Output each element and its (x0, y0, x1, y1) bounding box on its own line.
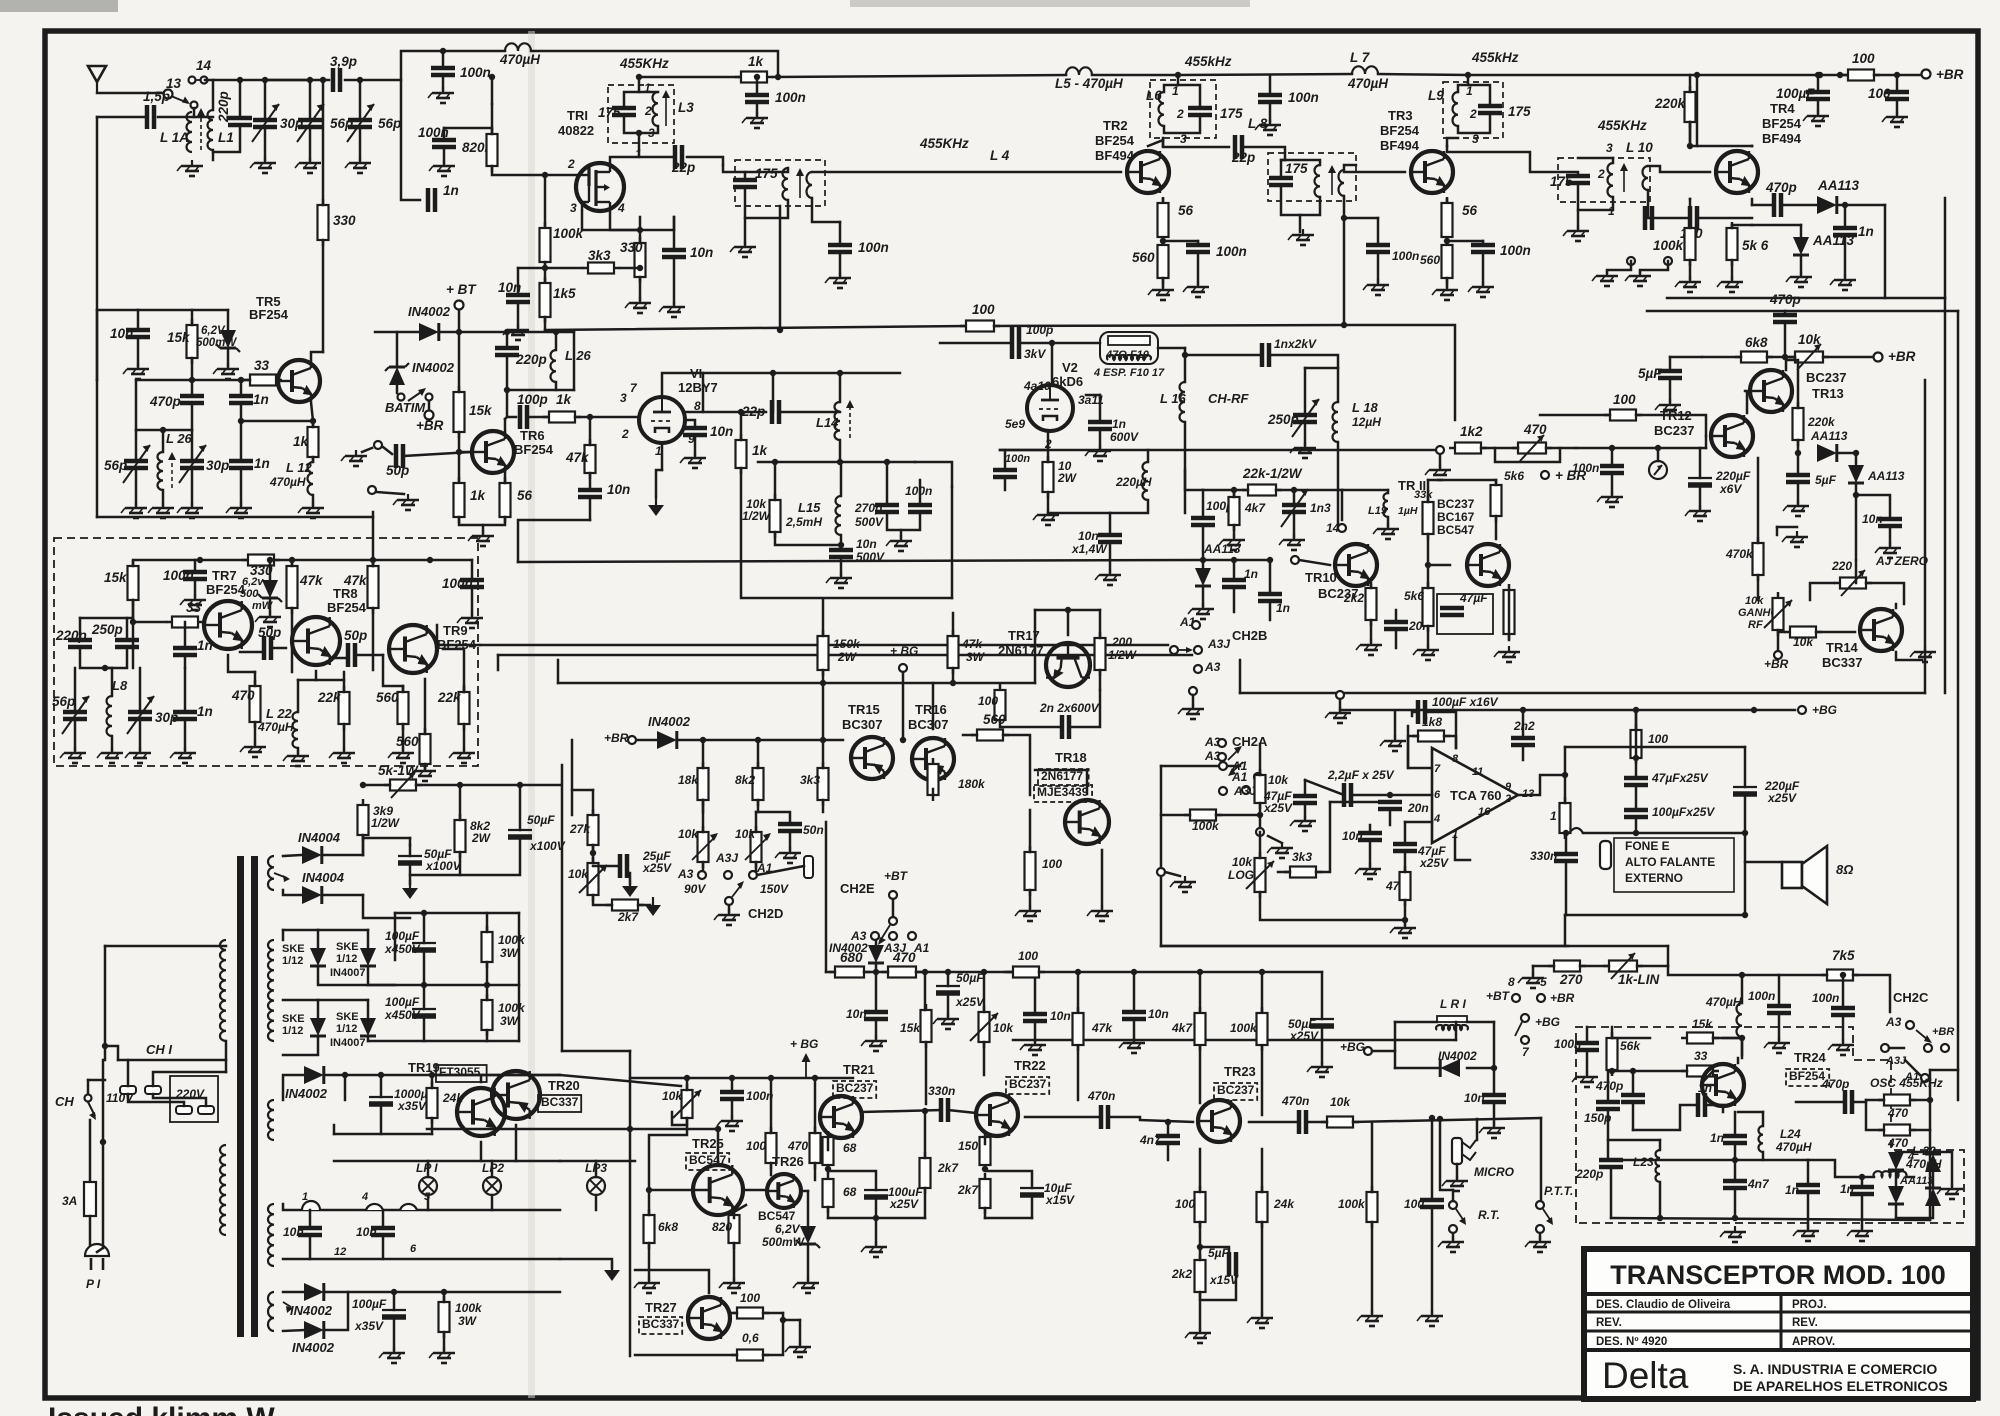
wire (595, 1195, 598, 1210)
svg-text:3k3: 3k3 (588, 248, 611, 263)
junction (1853, 450, 1859, 456)
wire (756, 77, 759, 95)
wire (1202, 525, 1205, 560)
svg-text:AA113: AA113 (1899, 1175, 1933, 1187)
svg-text:BF254: BF254 (1789, 1069, 1825, 1083)
wire (947, 972, 950, 986)
wire (1048, 512, 1110, 515)
svg-text:3W: 3W (966, 650, 986, 664)
wire to V1 grid (575, 416, 639, 419)
wire (1281, 160, 1320, 165)
resistor 100k 3W b (482, 994, 493, 1036)
wire (396, 385, 399, 393)
wire (685, 420, 695, 428)
wire (1202, 490, 1205, 515)
ground (180, 594, 206, 610)
svg-text:175: 175 (1220, 106, 1243, 121)
wire L4 to AGC bus (779, 206, 782, 330)
wire (322, 240, 325, 352)
capacitor cap (1645, 206, 1652, 230)
wire (1670, 356, 1702, 359)
inductor LR1 coil (1436, 1025, 1468, 1030)
svg-text:1/2W: 1/2W (1108, 648, 1138, 662)
wire (734, 1205, 746, 1212)
ground (634, 1277, 660, 1293)
svg-text:10k: 10k (678, 827, 699, 841)
junction (945, 969, 951, 975)
svg-text:100n: 100n (442, 576, 473, 591)
wire (191, 380, 194, 396)
wire (97, 309, 138, 312)
capacitor 470n c (1299, 1110, 1306, 1134)
wire (1344, 165, 1356, 170)
wire (1668, 966, 1827, 975)
svg-text:TR2: TR2 (1103, 118, 1128, 133)
capacitor 1n (173, 648, 197, 655)
wire (1197, 241, 1200, 245)
junction (1840, 972, 1846, 978)
resistor 8k2 2W (455, 814, 466, 858)
resistor 3k9 1/2W (358, 799, 369, 841)
wire (924, 1188, 927, 1218)
resistor 100 (960, 321, 1000, 332)
resistor 1k (308, 421, 319, 463)
svg-text:x100V: x100V (425, 859, 462, 873)
svg-text:AJ ZERO: AJ ZERO (1875, 554, 1929, 568)
capacitor 470p (1774, 193, 1781, 217)
resistor 18k (698, 762, 709, 806)
chassis ground (402, 880, 418, 899)
wire (443, 1292, 446, 1302)
wire (326, 1291, 560, 1294)
svg-text:10k: 10k (735, 827, 756, 841)
svg-text:FONE E: FONE E (1625, 839, 1670, 853)
svg-text:BF494: BF494 (1762, 131, 1802, 146)
svg-text:TR6: TR6 (520, 428, 545, 443)
svg-text:TR18: TR18 (1055, 750, 1087, 765)
variable capacitor 56p (123, 445, 150, 483)
ground (659, 301, 685, 317)
svg-text:47k: 47k (565, 450, 590, 465)
contact (698, 871, 706, 879)
wire (428, 401, 431, 410)
svg-text:2,5mH: 2,5mH (785, 515, 822, 529)
svg-text:A1: A1 (1231, 759, 1248, 773)
label BC337 (538, 1095, 581, 1112)
wire (822, 740, 825, 768)
wire (463, 686, 466, 692)
svg-text:270: 270 (1559, 972, 1583, 987)
wire (985, 1171, 1032, 1188)
contact (889, 891, 897, 899)
wire (1632, 1071, 1635, 1095)
wire (205, 79, 240, 82)
svg-text:10n: 10n (1342, 829, 1363, 843)
potentiometer 220 (1834, 570, 1872, 596)
wire (1669, 357, 1672, 371)
wire (557, 660, 560, 683)
svg-text:8k2: 8k2 (735, 773, 755, 787)
wire bus972 (1039, 971, 1322, 974)
svg-text:2W: 2W (837, 650, 858, 664)
wire right vertical B (1957, 311, 1960, 1100)
zener diode 1N4002 switch (385, 363, 409, 385)
wire (1493, 1102, 1496, 1125)
capacitor 10n 500V (829, 550, 853, 557)
transistor TR13 BC237 (1750, 370, 1792, 412)
transistor TR14 BC337 (1860, 609, 1902, 651)
wire (919, 480, 922, 505)
junction (421, 910, 427, 916)
PTT contact (1536, 1201, 1544, 1209)
capacitor 470n b (1101, 1105, 1108, 1129)
wire (1690, 145, 1752, 148)
wire (1099, 610, 1102, 638)
wire (1495, 480, 1498, 485)
wire (1439, 455, 1442, 467)
wire (1404, 851, 1407, 872)
wire long drop (825, 822, 828, 972)
svg-text:6k8: 6k8 (658, 1220, 678, 1234)
label MJE3439 (1034, 785, 1092, 802)
wire (1522, 710, 1525, 738)
wire (1408, 736, 1418, 768)
svg-text:3: 3 (570, 201, 577, 215)
wire (367, 930, 370, 948)
resistor 15k b (1681, 1033, 1719, 1044)
svg-text:2: 2 (567, 157, 575, 171)
resistor 1k (454, 477, 465, 523)
svg-text:100k: 100k (1653, 238, 1685, 253)
wire (1304, 803, 1307, 818)
junction (441, 1289, 447, 1295)
svg-text:220p: 220p (515, 352, 547, 367)
svg-text:Delta: Delta (1602, 1355, 1689, 1396)
wire (239, 80, 242, 118)
oscillator dashed box (1576, 1027, 1964, 1223)
wire (649, 1189, 690, 1192)
ground (148, 502, 174, 518)
wire (1178, 74, 1352, 75)
wire (1200, 1264, 1236, 1300)
wire (745, 168, 788, 172)
wire (458, 310, 461, 332)
wire (1004, 477, 1007, 490)
svg-text:40822: 40822 (558, 123, 594, 138)
wire (1199, 972, 1202, 1013)
wire (1202, 560, 1205, 568)
svg-text:L 8: L 8 (1248, 116, 1268, 131)
capacitor 1n c (1723, 1136, 1747, 1143)
svg-text:1n: 1n (197, 704, 213, 719)
wire (1147, 450, 1150, 462)
resistor 10k b (1321, 1117, 1359, 1128)
capacitor 100 (1885, 92, 1909, 99)
wire (362, 835, 365, 855)
wire (1161, 945, 1668, 948)
IF can L6 dashed box (1150, 80, 1216, 138)
wire (137, 310, 140, 330)
capacitor 50µF x100V (398, 856, 422, 863)
zener diode zener 6,2V b (796, 1226, 820, 1248)
wire (1261, 1045, 1264, 1115)
wire (395, 912, 519, 915)
svg-text:330: 330 (333, 213, 356, 228)
junction (1894, 72, 1900, 78)
junction (197, 557, 203, 563)
svg-text:24k: 24k (1273, 1197, 1295, 1211)
IF can L3 dashed box (608, 85, 674, 143)
wire (1261, 972, 1264, 1013)
wire (1842, 1015, 1845, 1042)
wire (1184, 422, 1187, 513)
scan fold line (528, 31, 535, 1398)
junction (1160, 238, 1166, 244)
junction (825, 1166, 831, 1172)
wire (1389, 809, 1392, 825)
+BR terminal (1541, 471, 1549, 479)
svg-text:1n: 1n (1785, 1183, 1799, 1197)
wire (423, 950, 426, 985)
svg-text:A3: A3 (677, 867, 694, 881)
wire (932, 683, 935, 729)
svg-text:220p: 220p (55, 628, 87, 643)
wire (1522, 745, 1525, 760)
resistor 22k (1242, 485, 1282, 496)
wire right vertical A (1944, 198, 1947, 298)
junction (1742, 830, 1748, 836)
wire (330, 657, 348, 660)
wire (344, 1075, 347, 1100)
capacitor 4n7 b (1723, 1181, 1747, 1188)
wire (745, 187, 788, 218)
diode 1N4002 d (304, 1283, 324, 1301)
junction (1817, 72, 1823, 78)
mic hooks (1462, 1140, 1476, 1160)
wire (624, 115, 658, 133)
svg-text:250p: 250p (91, 622, 123, 637)
svg-text:56: 56 (1462, 203, 1478, 218)
wire (875, 1218, 878, 1244)
polarity arrow (283, 1302, 293, 1313)
wire (1784, 322, 1787, 357)
wire (1034, 972, 1037, 1014)
wire (1369, 825, 1372, 833)
wire (460, 784, 520, 787)
inductor L3 coil (653, 92, 659, 126)
wire (368, 1040, 519, 1043)
resistor 27k (588, 809, 599, 851)
svg-text:TR II: TR II (1398, 478, 1426, 493)
switch lever (408, 388, 426, 401)
resistor 330 (242, 555, 280, 566)
svg-text:100: 100 (740, 1291, 760, 1305)
junction (780, 1317, 786, 1323)
title block outer box (1584, 1249, 1973, 1399)
svg-text:100µFx25V: 100µFx25V (1652, 805, 1715, 819)
junction (456, 329, 462, 335)
wire (225, 1060, 228, 1072)
wire (298, 679, 316, 682)
wire (1565, 914, 1745, 917)
wire (334, 1133, 432, 1136)
wire (324, 894, 363, 897)
ground (1417, 1310, 1443, 1326)
svg-text:BF254: BF254 (1762, 116, 1802, 131)
wire (458, 332, 461, 392)
wire (309, 1210, 312, 1228)
wire (1394, 1022, 1397, 1068)
wire (827, 1207, 830, 1218)
contact (724, 871, 732, 879)
svg-text:330n: 330n (1530, 849, 1557, 863)
wire (1086, 394, 1100, 397)
svg-text:BF254: BF254 (1380, 123, 1420, 138)
capacitor 470p (1773, 315, 1797, 322)
switch lever 13 (171, 96, 190, 104)
svg-text:BC547: BC547 (1437, 523, 1475, 537)
wire (79, 618, 82, 640)
ground (775, 847, 801, 863)
junction (1815, 72, 1821, 78)
wire (191, 403, 194, 430)
capacitor 2n2 (1511, 738, 1535, 745)
capacitor 25µF (620, 854, 627, 878)
junction (1563, 830, 1569, 836)
svg-text:TR3: TR3 (1388, 108, 1413, 123)
potentiometer 10k (579, 857, 607, 901)
wire (363, 784, 390, 787)
svg-text:BC337: BC337 (541, 1095, 579, 1109)
wire (595, 1161, 598, 1177)
junction (1165, 1119, 1171, 1125)
wire (1378, 74, 1468, 75)
ground (1563, 225, 1589, 241)
ground (1390, 922, 1416, 938)
ground (1119, 1037, 1145, 1053)
wire (89, 1216, 92, 1248)
svg-text:+BG: +BG (1535, 1015, 1560, 1029)
transistor TR8 BF254 (292, 617, 340, 665)
capacitor 100 (1690, 206, 1697, 230)
wire (517, 302, 520, 327)
ground (719, 1277, 745, 1293)
inductor 470uH (505, 43, 531, 51)
wire (1667, 297, 1885, 300)
wire (1896, 652, 1922, 660)
capacitor 100uFx16V (1418, 700, 1425, 724)
wire (1101, 850, 1104, 908)
wire (1405, 821, 1432, 824)
junction (1837, 72, 1843, 78)
wire (1178, 85, 1200, 108)
svg-text:1k-LIN: 1k-LIN (1618, 972, 1660, 987)
+BT terminal (455, 301, 464, 310)
wire (1351, 794, 1432, 797)
svg-text:330n: 330n (928, 1084, 955, 1098)
junction (837, 459, 843, 465)
wire (839, 373, 842, 402)
svg-text:RF: RF (1748, 619, 1763, 631)
junction (777, 327, 783, 333)
junction (262, 77, 268, 83)
ground (123, 363, 149, 379)
wire (940, 342, 1012, 345)
capacitor 10n (126, 330, 150, 337)
contact (1170, 646, 1178, 654)
wire (826, 971, 835, 974)
capacitor 100n (183, 572, 207, 579)
electrolytic box 47uF (1437, 594, 1493, 634)
wire (402, 724, 405, 750)
contact (889, 932, 897, 940)
wire (1610, 1167, 1613, 1218)
ground (329, 747, 355, 763)
wire (240, 651, 264, 654)
svg-text:100µF: 100µF (352, 1297, 387, 1311)
ground (826, 572, 852, 588)
wire pot wiper return (1495, 448, 1560, 462)
resistor 8k2 (753, 762, 764, 806)
resistor 820k (487, 128, 498, 172)
+BR terminal (425, 411, 434, 420)
resistor 1k5 (540, 277, 551, 323)
wire (126, 618, 129, 640)
wire (1163, 140, 1229, 147)
resistor 47k (287, 560, 298, 614)
capacitor 175 (1566, 176, 1590, 183)
ground (457, 612, 483, 628)
title block row divider 3 (1584, 1348, 1973, 1352)
inductor L26b (550, 350, 556, 382)
junction (837, 370, 843, 376)
svg-text:22p: 22p (1231, 150, 1255, 165)
inductor L15 (836, 496, 842, 535)
junction (1065, 607, 1071, 613)
resistor 100k (540, 222, 551, 268)
svg-text:TR20: TR20 (548, 1078, 580, 1093)
wire (471, 587, 474, 615)
svg-text:10n: 10n (283, 1225, 304, 1239)
wire (1776, 527, 1779, 535)
transistor TR22 BC237 (976, 1094, 1018, 1136)
wire (1702, 356, 1741, 359)
svg-text:PROJ.: PROJ. (1792, 1299, 1827, 1311)
wire (1738, 1111, 1763, 1114)
svg-text:2: 2 (1597, 167, 1605, 181)
svg-text:10n: 10n (1862, 512, 1883, 526)
junction (1732, 1157, 1738, 1163)
svg-text:BF254: BF254 (327, 600, 367, 615)
svg-text:100n: 100n (858, 240, 889, 255)
wire (326, 1292, 348, 1330)
wire (571, 740, 574, 815)
inductor L8 pri (1315, 165, 1321, 197)
inductor LV winding 2 (268, 1100, 274, 1140)
junction (360, 782, 366, 788)
wire (1034, 1021, 1037, 1042)
wire (1580, 965, 1609, 968)
wire heater bus (283, 1204, 560, 1210)
diode 1N4002 c (304, 1066, 324, 1084)
inductor L23 (1656, 1150, 1661, 1182)
junction (1633, 830, 1639, 836)
svg-text:x25V: x25V (1289, 1029, 1319, 1043)
junction (1402, 917, 1408, 923)
svg-text:56: 56 (1178, 203, 1194, 218)
wire (1667, 946, 1670, 966)
wire (1800, 257, 1803, 274)
